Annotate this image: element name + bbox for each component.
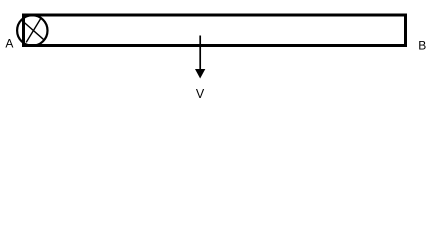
svg-text:V: V: [196, 87, 205, 101]
rod AB (rectangle): [24, 15, 406, 46]
crossed-circle symbol at end A: [17, 15, 47, 45]
velocity arrow shaft: [199, 36, 201, 71]
svg-text:A: A: [5, 37, 13, 51]
svg-text:B: B: [418, 39, 426, 53]
X chord 2 of crossed circle: [26, 19, 40, 43]
X chord 1 of crossed circle: [22, 21, 44, 40]
velocity arrowhead: [195, 69, 205, 79]
